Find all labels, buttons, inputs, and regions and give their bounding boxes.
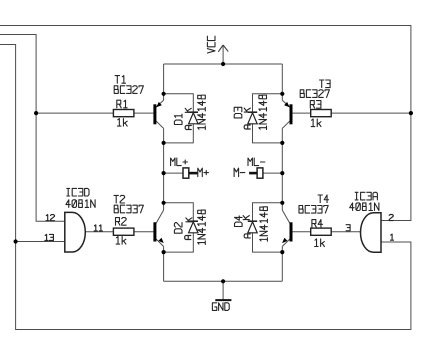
diode D1 1N4148 bbox=[174, 95, 205, 129]
resistor R4 1k bbox=[311, 220, 332, 247]
wire IC3D pin 13 branch bbox=[16, 241, 65, 243]
diode D2 1N4148 bbox=[174, 210, 205, 244]
junction T3 emitter node bbox=[280, 92, 284, 96]
pin 13 label bbox=[45, 234, 54, 240]
junction T3 collector node bbox=[280, 141, 284, 145]
wire IC3D pin 11 to R2 bbox=[85, 231, 113, 233]
connector pin ML- (M-) bbox=[234, 158, 265, 178]
wire R2 to T2 base bbox=[134, 231, 154, 233]
wire T3 to R3 bbox=[293, 112, 311, 114]
connector pin ML+ (M+) bbox=[171, 158, 209, 178]
wire D1 branch bbox=[164, 94, 194, 143]
junction GND tap bbox=[221, 279, 225, 283]
wire left column middle bbox=[163, 128, 165, 210]
pin 3 label bbox=[346, 225, 350, 231]
ground GND bbox=[212, 281, 231, 310]
junction T3 base tap bbox=[409, 111, 413, 115]
transistor T4 BC337 bbox=[282, 195, 329, 246]
wire bottom rail bbox=[164, 280, 283, 282]
wire D2 branch bbox=[164, 203, 194, 252]
wire D4 branch bbox=[253, 203, 283, 252]
junction VCC tap bbox=[221, 62, 225, 66]
wire VCC rail bbox=[164, 63, 283, 65]
resistor R1 1k bbox=[113, 100, 133, 126]
transistor T1 BC327 bbox=[114, 76, 163, 129]
wire right column top bbox=[281, 64, 283, 100]
wire ML- stub bbox=[263, 172, 282, 174]
junction IC3D pin 13 tap bbox=[14, 239, 18, 243]
wire D3 branch bbox=[253, 94, 283, 143]
junction node ML- bbox=[280, 171, 284, 175]
junction T2 emitter node bbox=[162, 250, 166, 254]
diode D3 1N4148 bbox=[234, 95, 266, 129]
wire R1 to T1 bbox=[134, 112, 154, 114]
wire T4 base to R4 bbox=[293, 231, 311, 233]
junction T2 collector node bbox=[162, 201, 166, 205]
junction T1 collector node bbox=[162, 141, 166, 145]
pin 1 label bbox=[390, 234, 393, 240]
junction node ML+ bbox=[162, 171, 166, 175]
pin 11 label bbox=[94, 225, 102, 231]
wire T3 base bbox=[331, 112, 411, 114]
diode D4 1N4148 bbox=[235, 207, 268, 241]
pin 12 label bbox=[46, 215, 55, 221]
wire T1 base bbox=[36, 112, 113, 114]
transistor T2 BC337 bbox=[114, 195, 164, 246]
wire right column middle bbox=[281, 128, 283, 210]
junction T4 collector node bbox=[280, 201, 284, 205]
power VCC bbox=[207, 36, 228, 64]
pin 2 label bbox=[389, 215, 393, 221]
op-amp gate IC3A 4081N (AND) bbox=[350, 192, 381, 252]
resistor R3 1k bbox=[310, 101, 331, 127]
resistor R2 1k bbox=[113, 218, 133, 245]
wire right column bottom bbox=[281, 246, 283, 281]
wire R4 to IC3A pin 3 bbox=[331, 231, 360, 233]
wire left column top bbox=[163, 64, 165, 100]
op-amp gate IC3D 4081N (AND) bbox=[65, 188, 95, 252]
junction T1 emitter node bbox=[162, 92, 166, 96]
junction T4 emitter node bbox=[280, 250, 284, 254]
transistor T3 BC327 bbox=[282, 80, 330, 128]
junction T1 base tap bbox=[34, 111, 38, 115]
wire net IN1 to T1 base and IC3D pin 12 bbox=[0, 35, 65, 222]
wire net IN2 top input to T3 base and IC3A pin 2 bbox=[0, 26, 411, 221]
wire left column bottom bbox=[163, 246, 165, 281]
wire ML+ stub bbox=[164, 172, 183, 174]
